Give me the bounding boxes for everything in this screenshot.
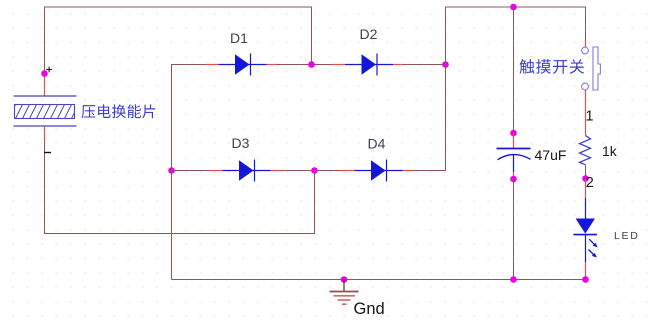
junction cap branch top — [510, 4, 517, 11]
wire node2 to LED — [585, 179, 587, 198]
junction ground tap — [341, 276, 348, 283]
wire D1-D2 link — [277, 64, 335, 66]
ground stub — [343, 280, 345, 292]
junction node 2 — [582, 175, 589, 182]
svg-text:D3: D3 — [232, 135, 250, 151]
touch switch terminal bottom — [582, 83, 589, 90]
diode D4 — [342, 170, 355, 172]
wire piezo minus run — [44, 233, 315, 235]
LED body — [576, 219, 595, 234]
svg-text:2: 2 — [586, 175, 594, 191]
label minus — [44, 152, 51, 154]
wire piezo minus drop — [44, 140, 46, 234]
capacitor C pin bottom — [513, 155, 515, 173]
piezo transducer pin bottom — [44, 126, 46, 141]
piezo transducer bottom plate — [14, 125, 77, 127]
junction node AC2 — [311, 167, 318, 174]
wire top-left rail — [44, 6, 312, 8]
capacitor 47uF plate bottom (curved) — [498, 155, 531, 160]
label 压电换能片 — [81, 104, 155, 118]
junction cap pin 1 — [510, 130, 517, 137]
wire LED to rail — [585, 262, 587, 280]
wire AC2 drop — [314, 171, 316, 234]
wire switch to resistor — [585, 90, 587, 136]
wire switch feed — [585, 7, 587, 41]
wire bridge negative bus — [171, 64, 173, 280]
label 触摸开关 — [520, 59, 585, 74]
svg-text:D4: D4 — [368, 136, 386, 152]
switch pin top — [585, 40, 587, 47]
wire top-right rail — [446, 6, 586, 8]
diode D1 — [206, 64, 219, 66]
junction cap return — [510, 276, 517, 283]
touch switch plunger — [593, 47, 600, 90]
wire D3-D4 link — [281, 170, 344, 172]
svg-text:1k: 1k — [602, 143, 618, 159]
capacitor 47uF plate top — [497, 148, 531, 150]
junction node V+ top — [442, 61, 449, 68]
wire V+ bus — [445, 7, 447, 171]
junction node AC1 — [308, 61, 315, 68]
touch switch terminal top — [582, 47, 589, 54]
LED cathode pin — [585, 235, 587, 262]
junction bridge negative / D3 anode — [168, 167, 175, 174]
LED cathode bar — [573, 234, 597, 236]
piezo transducer body (hatched) — [8, 104, 79, 120]
svg-text:47uF: 47uF — [535, 147, 567, 163]
svg-text:Gnd: Gnd — [354, 300, 385, 318]
diode D2 — [332, 64, 345, 66]
LED emission arrow 1 — [589, 239, 595, 245]
svg-text:LED: LED — [614, 230, 640, 242]
wire cap branch upper — [513, 7, 515, 134]
wire ground rail — [172, 279, 586, 281]
piezo transducer pin top — [44, 76, 46, 97]
piezo transducer top plate — [14, 95, 77, 97]
ground symbol — [330, 292, 359, 305]
svg-text:D1: D1 — [230, 30, 248, 46]
wire D2 out — [403, 64, 446, 66]
wire resistor to node 2 — [585, 165, 587, 179]
wire cap branch lower — [513, 179, 515, 280]
label plus — [46, 69, 52, 71]
capacitor C pin top — [513, 133, 515, 148]
junction cap pin 2 — [510, 176, 517, 183]
wire D3 row left — [172, 170, 213, 172]
junction piezo plus — [41, 70, 48, 77]
diode D3 — [210, 170, 223, 172]
svg-text:1: 1 — [586, 109, 594, 125]
wire bridge AC1 drop — [311, 7, 313, 65]
LED anode pin — [585, 198, 587, 219]
junction LED return — [582, 276, 589, 283]
LED emission arrow 2 — [589, 250, 595, 256]
svg-text:D2: D2 — [360, 26, 378, 42]
wire D4 out — [413, 170, 446, 172]
resistor R 1k — [580, 136, 591, 165]
wire D1 row left — [172, 64, 209, 66]
wire piezo plus riser — [44, 7, 46, 74]
